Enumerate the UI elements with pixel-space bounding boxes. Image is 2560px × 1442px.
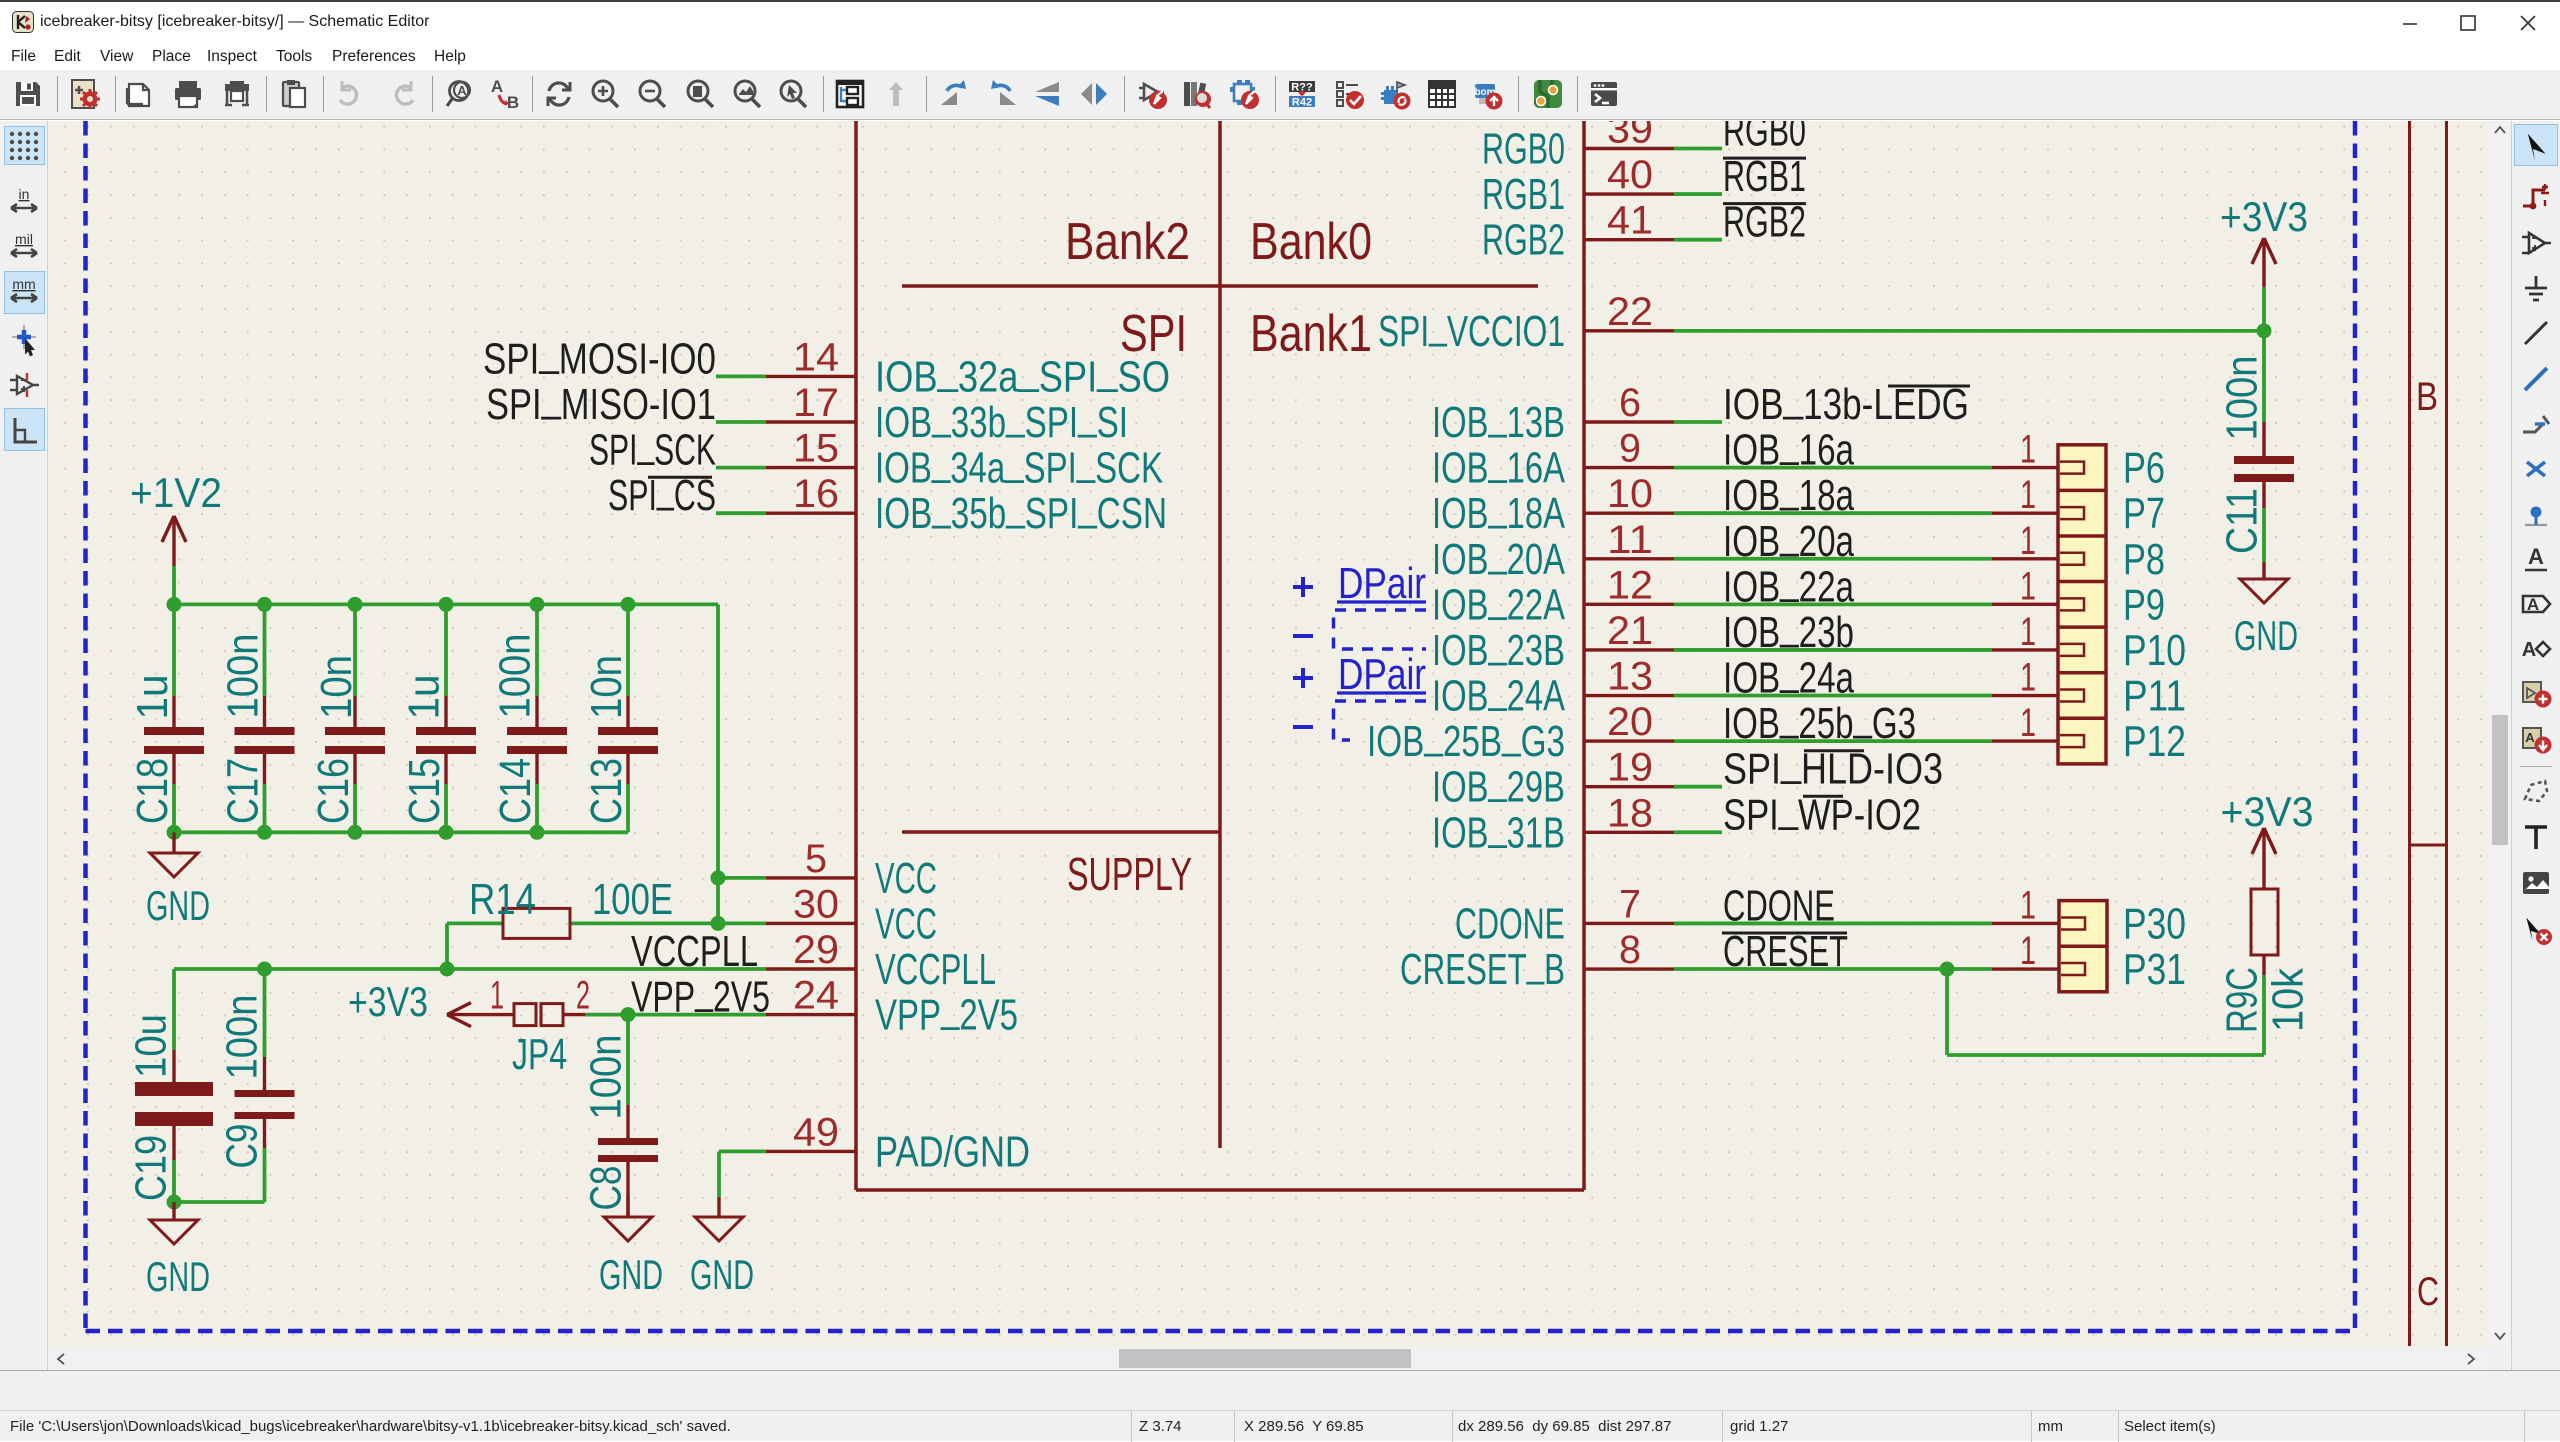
svg-text:21: 21 [1607, 609, 1653, 653]
svg-text:P9: P9 [2123, 580, 2165, 629]
svg-text:Bank0: Bank0 [1250, 213, 1372, 271]
svg-text:GND: GND [2234, 612, 2298, 659]
svg-text:in: in [19, 186, 30, 202]
svg-text:C18: C18 [128, 758, 177, 824]
svg-text:CRESET: CRESET [1723, 927, 1848, 976]
svg-text:6: 6 [1619, 381, 1641, 425]
svg-text:SPI_VCCIO1: SPI_VCCIO1 [1378, 299, 1565, 356]
svg-text:SUPPLY: SUPPLY [1067, 848, 1192, 900]
svg-text:11: 11 [1607, 518, 1653, 562]
svg-text:SPI_WP-IO2: SPI_WP-IO2 [1723, 782, 1921, 839]
svg-text:RGB0: RGB0 [1723, 121, 1806, 156]
svg-text:R14: R14 [469, 875, 536, 924]
svg-text:GND: GND [146, 882, 210, 929]
svg-text:1: 1 [2020, 610, 2036, 654]
svg-text:29: 29 [793, 928, 839, 972]
svg-text:1: 1 [2020, 519, 2036, 563]
svg-text:P30: P30 [2123, 899, 2186, 948]
svg-text:B: B [2416, 375, 2438, 419]
svg-text:10n: 10n [312, 655, 361, 719]
svg-text:GND: GND [599, 1251, 663, 1298]
svg-text:10n: 10n [582, 655, 631, 719]
svg-text:SPI_CS: SPI_CS [608, 463, 716, 520]
svg-text:C19: C19 [127, 1135, 176, 1201]
svg-text:RGB1: RGB1 [1482, 170, 1565, 219]
svg-text:R42: R42 [1292, 97, 1312, 109]
svg-text:VCC: VCC [875, 899, 937, 948]
svg-text:SPI_MISO-IO1: SPI_MISO-IO1 [486, 372, 716, 429]
svg-text:2: 2 [576, 974, 590, 1018]
svg-text:C14: C14 [491, 758, 540, 824]
svg-text:100n: 100n [491, 634, 540, 719]
svg-text:100n: 100n [582, 1035, 631, 1120]
svg-text:10k: 10k [2264, 967, 2313, 1032]
svg-text:C9: C9 [218, 1124, 267, 1169]
svg-text:VPP_2V5: VPP_2V5 [631, 965, 770, 1022]
svg-text:1: 1 [2020, 701, 2036, 745]
svg-text:RGB2: RGB2 [1482, 216, 1565, 265]
svg-text:IOB_35b_SPI_CSN: IOB_35b_SPI_CSN [875, 481, 1167, 538]
svg-text:+3V3: +3V3 [2220, 193, 2308, 240]
svg-text:1u: 1u [128, 675, 177, 720]
svg-text:PAD/GND: PAD/GND [875, 1127, 1030, 1176]
svg-text:100n: 100n [218, 995, 267, 1080]
svg-text:SPI_HLD-IO3: SPI_HLD-IO3 [1723, 737, 1943, 794]
svg-text:14: 14 [793, 335, 839, 379]
svg-text:A: A [2525, 730, 2535, 745]
svg-text:R9C: R9C [2218, 967, 2267, 1033]
svg-text:A: A [2522, 639, 2536, 661]
svg-text:1: 1 [2020, 883, 2036, 927]
svg-text:A: A [457, 83, 467, 98]
svg-text:mm: mm [12, 276, 35, 292]
svg-text:+1V2: +1V2 [130, 469, 222, 516]
svg-text:C17: C17 [219, 758, 268, 824]
svg-text:9: 9 [1619, 427, 1641, 471]
svg-text:IOB_24A: IOB_24A [1432, 664, 1565, 721]
svg-text:P8: P8 [2123, 535, 2165, 584]
svg-text:A: A [2527, 595, 2539, 614]
svg-text:mil: mil [15, 231, 33, 247]
svg-text:GND: GND [146, 1253, 210, 1300]
svg-text:+3V3: +3V3 [348, 978, 428, 1025]
svg-text:16: 16 [793, 472, 839, 516]
svg-text:IOB_31B: IOB_31B [1432, 800, 1565, 857]
svg-text:P6: P6 [2123, 444, 2165, 493]
svg-text:20: 20 [1607, 700, 1653, 744]
svg-text:10u: 10u [127, 1014, 176, 1078]
svg-text:Bank2: Bank2 [1065, 213, 1190, 271]
svg-text:+3V3: +3V3 [2221, 788, 2314, 835]
svg-text:DPair: DPair [1338, 650, 1426, 699]
svg-text:JP4: JP4 [512, 1030, 567, 1079]
svg-text:P31: P31 [2123, 945, 2186, 994]
svg-text:B: B [507, 93, 519, 110]
svg-text:Bank1: Bank1 [1250, 305, 1372, 363]
svg-text:C8: C8 [582, 1166, 631, 1211]
svg-text:100E: 100E [592, 875, 673, 924]
svg-text:1: 1 [2020, 473, 2036, 517]
svg-text:A: A [2528, 544, 2544, 569]
svg-text:SPI_SCK: SPI_SCK [589, 418, 716, 475]
svg-text:VPP_2V5: VPP_2V5 [875, 983, 1018, 1040]
svg-text:IOB_25b_G3: IOB_25b_G3 [1723, 691, 1916, 748]
svg-text:22: 22 [1607, 290, 1653, 334]
svg-text:C15: C15 [400, 758, 449, 824]
svg-text:49: 49 [793, 1110, 839, 1154]
svg-text:1: 1 [2020, 656, 2036, 700]
svg-text:RGB0: RGB0 [1482, 125, 1565, 174]
svg-text:RGB2: RGB2 [1723, 198, 1806, 247]
svg-text:100n: 100n [2218, 356, 2267, 441]
svg-text:VCC: VCC [875, 854, 937, 903]
svg-text:SPI_MOSI-IO0: SPI_MOSI-IO0 [483, 326, 716, 383]
svg-text:CDONE: CDONE [1455, 899, 1565, 948]
svg-text:15: 15 [793, 427, 839, 471]
svg-text:30: 30 [793, 882, 839, 926]
svg-text:P7: P7 [2123, 489, 2165, 538]
svg-text:1: 1 [2020, 929, 2036, 973]
svg-text:C: C [2417, 1270, 2439, 1314]
svg-text:1u: 1u [400, 675, 449, 720]
svg-text:24: 24 [793, 974, 839, 1018]
svg-text:5: 5 [805, 837, 827, 881]
svg-text:17: 17 [793, 381, 839, 425]
svg-text:41: 41 [1607, 199, 1653, 243]
svg-text:12: 12 [1607, 563, 1653, 607]
svg-text:19: 19 [1607, 746, 1653, 790]
svg-text:P11: P11 [2123, 672, 2186, 721]
svg-text:DPair: DPair [1338, 559, 1426, 608]
svg-text:C16: C16 [309, 758, 358, 824]
svg-text:39: 39 [1607, 121, 1653, 152]
svg-text:8: 8 [1619, 928, 1641, 972]
svg-text:CDONE: CDONE [1723, 881, 1835, 930]
svg-text:A: A [491, 78, 503, 96]
svg-text:VCCPLL: VCCPLL [875, 945, 996, 994]
svg-text:IOB_13b-LEDG: IOB_13b-LEDG [1723, 372, 1969, 429]
svg-text:C11: C11 [2218, 488, 2267, 554]
svg-text:GND: GND [690, 1251, 754, 1298]
svg-text:P10: P10 [2123, 626, 2186, 675]
svg-text:P12: P12 [2123, 717, 2186, 766]
svg-text:C13: C13 [582, 758, 631, 824]
svg-text:7: 7 [1619, 882, 1641, 926]
svg-text:1: 1 [2020, 564, 2036, 608]
svg-text:1: 1 [2020, 428, 2036, 472]
svg-text:IOB_25B_G3: IOB_25B_G3 [1367, 709, 1565, 766]
svg-text:13: 13 [1607, 655, 1653, 699]
svg-text:100n: 100n [219, 634, 268, 719]
svg-text:10: 10 [1607, 472, 1653, 516]
svg-text:1: 1 [490, 974, 504, 1018]
svg-text:CRESET_B: CRESET_B [1400, 937, 1565, 994]
svg-text:40: 40 [1607, 153, 1653, 197]
svg-text:18: 18 [1607, 791, 1653, 835]
svg-text:RGB1: RGB1 [1723, 152, 1806, 201]
